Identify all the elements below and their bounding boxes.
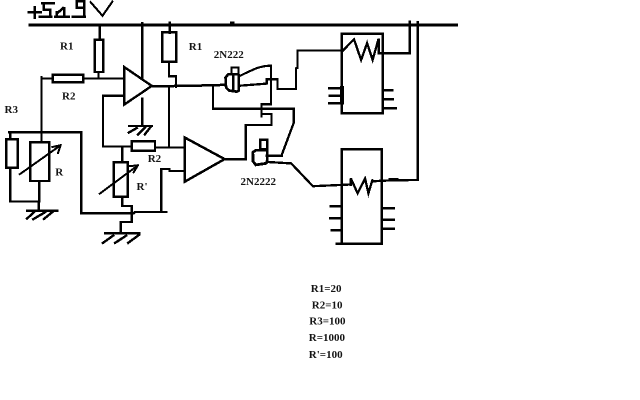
resistor R2 (left, horizontal) xyxy=(53,75,83,83)
wire R3 bottom xyxy=(9,168,11,202)
wire U2 input drop xyxy=(160,169,162,212)
wire S-jog emitter drop xyxy=(246,66,272,125)
wire bottom left horizontal xyxy=(10,200,39,202)
svg-text:R2=10: R2=10 xyxy=(312,300,343,312)
rail glitch dot xyxy=(231,22,234,24)
wire feedback horizontal xyxy=(103,145,132,147)
wire R bottom xyxy=(38,181,40,201)
wire R2 to op-amp U1 input xyxy=(83,77,124,79)
svg-text:R3: R3 xyxy=(5,104,19,116)
rheostat R' box xyxy=(114,162,128,196)
wire R2 left xyxy=(41,77,52,79)
resistor R3 xyxy=(6,139,18,167)
wire R1a bottom xyxy=(97,72,99,78)
wire left branch vertical xyxy=(40,77,42,142)
transistor Q2 2N2222 body xyxy=(253,150,267,165)
wire U1 output xyxy=(152,85,225,87)
svg-text:R1=20: R1=20 xyxy=(311,283,342,295)
resistor R2 (second, horizontal) xyxy=(132,141,155,150)
rheostat R' arrow xyxy=(100,165,138,193)
wire base horizontal xyxy=(213,108,294,110)
svg-text:R': R' xyxy=(137,181,148,193)
heater 2 zigzag xyxy=(351,178,373,193)
svg-text:R: R xyxy=(55,167,64,179)
wire to R3 xyxy=(9,132,11,139)
wire heater 2 right xyxy=(372,180,417,182)
heater block 2 xyxy=(342,149,382,244)
wire U1 output drop xyxy=(212,85,214,108)
wire U2 noninverting input jog xyxy=(161,169,185,171)
heater 2 pin tick xyxy=(390,178,398,180)
svg-text:R'=100: R'=100 xyxy=(309,349,343,361)
wire rail to U1 power xyxy=(141,23,143,77)
op-amp U1 xyxy=(124,67,152,105)
transistor Q1 2N222 body xyxy=(226,74,239,92)
wire R' bottom jog xyxy=(122,197,131,214)
heater 2 right pins xyxy=(382,208,394,229)
heater 2 left pins xyxy=(330,206,342,230)
wire to rheostat R' xyxy=(121,146,123,162)
ground U1 xyxy=(129,125,152,127)
svg-text:R=1000: R=1000 xyxy=(309,332,346,344)
wire Q2 to heater 2 xyxy=(266,162,350,186)
wire rail to R1b xyxy=(169,23,171,33)
wire drop to Q2 node xyxy=(245,125,247,159)
wire U2 output xyxy=(225,158,246,160)
ground left xyxy=(38,201,40,211)
ground middle xyxy=(121,213,132,233)
wire rail to R1a xyxy=(98,26,100,40)
wire U1 output to U2 input xyxy=(168,86,170,147)
wire left riser xyxy=(80,132,82,213)
svg-text:R1: R1 xyxy=(189,41,202,53)
heater block 1 xyxy=(342,34,383,114)
svg-text:R2: R2 xyxy=(62,91,76,103)
wire R1b bottom jog xyxy=(169,62,176,87)
op-amp U2 xyxy=(185,138,225,182)
svg-text:2N2222: 2N2222 xyxy=(241,176,277,188)
wire U1 to ground xyxy=(141,99,143,127)
transistor Q2 base tab xyxy=(260,140,267,149)
svg-text:R1: R1 xyxy=(60,40,73,52)
wire Q2 upper right xyxy=(266,109,293,156)
heater 1 right pins xyxy=(383,90,396,108)
heater 1 left pins xyxy=(329,88,342,103)
wire U1 inverting input xyxy=(103,95,124,97)
power rail +5V xyxy=(30,24,457,27)
wire bottom horizontal xyxy=(81,212,166,213)
wire node horizontal xyxy=(9,131,81,133)
resistor R1 (left) xyxy=(95,40,104,72)
transistor Q1 base tab xyxy=(231,67,238,74)
transistor Q1 emitter curve xyxy=(239,66,271,77)
svg-text:R3=100: R3=100 xyxy=(309,316,346,328)
value list xyxy=(309,283,346,361)
supply label +5a9V xyxy=(29,1,113,17)
rheostat R box xyxy=(30,142,49,181)
svg-text:R2: R2 xyxy=(148,153,162,165)
resistor R1 (second) xyxy=(162,32,176,62)
heater 1 zigzag xyxy=(343,39,383,60)
wire Q1 collector path xyxy=(240,51,343,89)
svg-text:2N222: 2N222 xyxy=(214,49,244,61)
wire R2b to U2 xyxy=(155,146,185,148)
wire rail to heater 2 xyxy=(417,22,419,180)
rheostat R arrow xyxy=(20,145,61,174)
wire feedback vertical xyxy=(102,96,104,147)
wire heater 1 to rail xyxy=(383,22,410,54)
